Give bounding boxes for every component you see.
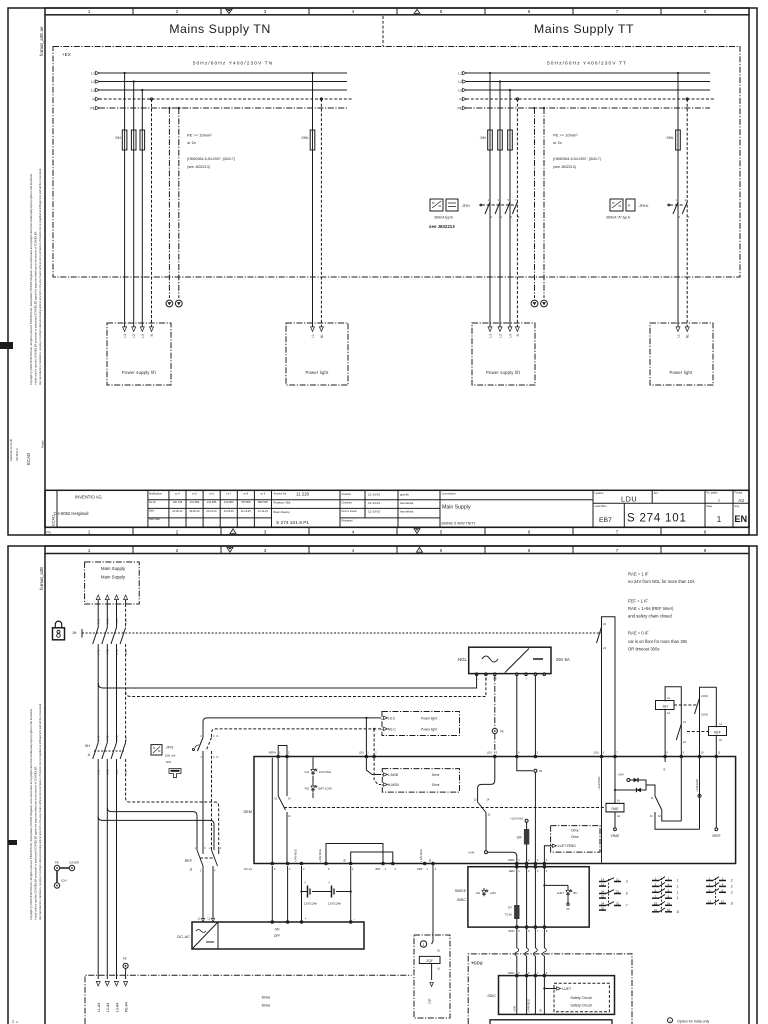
svg-text:RAE = 0 IF: RAE = 0 IF <box>628 631 649 636</box>
fuse .SI7 <box>514 905 519 919</box>
wire L1 drop to fuse TN <box>124 73 126 130</box>
svg-text:RAE = 1 IF: RAE = 1 IF <box>628 572 649 577</box>
wire L2 fuse to box TN <box>133 150 135 327</box>
svg-text:4: 4 <box>352 548 355 553</box>
svg-text:+24V-EVK: +24V-EVK <box>695 779 699 792</box>
box Main Supply feed <box>85 562 140 604</box>
svg-text:ex 9: ex 9 <box>261 493 266 496</box>
svg-text:It shall only be used by SCHIN: It shall only be used by SCHINDLER perso… <box>34 766 38 920</box>
svg-text:50Hz/60Hz Y400/230V TN: 50Hz/60Hz Y400/230V TN <box>193 61 274 67</box>
main switch .JH padlock icon <box>53 628 65 640</box>
svg-text:1: 1 <box>423 943 425 947</box>
svg-text:880 508: 880 508 <box>258 500 268 504</box>
svg-text:+24V: +24V <box>513 1005 517 1012</box>
svg-text:6: 6 <box>528 529 531 534</box>
wire N drop TT dashed <box>516 99 518 327</box>
terminals SDIC top <box>516 974 519 977</box>
wire NGL minus to LDU5 <box>534 676 536 757</box>
svg-text:E: E <box>664 768 666 772</box>
wire L1 fuse to box TN <box>124 150 126 327</box>
svg-text:T2.5A: T2.5A <box>505 913 513 917</box>
svg-text:.LUET: .LUET <box>561 987 572 991</box>
junction L1 tap TN <box>124 72 126 74</box>
wire L1 bus TN <box>99 72 347 74</box>
svg-text:L3: L3 <box>91 89 95 93</box>
svg-text:NL: NL <box>320 334 324 338</box>
svg-text:ECAD: ECAD <box>51 515 56 526</box>
RCD .JFIHL switch contacts <box>673 202 678 214</box>
svg-text:ZQF: ZQF <box>427 998 431 1004</box>
svg-text:+24V-NSG: +24V-NSG <box>318 849 322 862</box>
box Power light TN <box>286 323 348 385</box>
svg-text:212 859: 212 859 <box>224 500 234 504</box>
earth bonding PE COVER LDU <box>54 865 59 870</box>
svg-text:ex 7: ex 7 <box>226 493 231 496</box>
svg-text:see J632213: see J632213 <box>429 224 455 229</box>
RCD .JFIH symbol boxes <box>430 199 443 211</box>
svg-text:PE: PE <box>457 107 462 111</box>
svg-text:L3-A4: L3-A4 <box>115 1003 119 1012</box>
wire SIHL drop TT <box>677 73 679 130</box>
wire drops to fuses TT <box>489 73 491 130</box>
terminal arrows from main supply <box>96 595 100 600</box>
svg-text:.1: .1 <box>676 879 679 883</box>
svg-text:Main Supply: Main Supply <box>101 575 126 580</box>
svg-text:22: 22 <box>601 894 605 898</box>
svg-text:.SEM: .SEM <box>508 869 514 873</box>
LED GN +24V in SMICE <box>482 890 486 894</box>
svg-text:.SIH: .SIH <box>479 136 486 140</box>
page 2 inner drawing border <box>44 554 46 1024</box>
svg-text:.SIHL: .SIHL <box>301 136 310 140</box>
svg-text:L3: L3 <box>458 89 462 93</box>
svg-text:.2: .2 <box>730 884 733 888</box>
svg-text:61: 61 <box>654 908 658 912</box>
dash-dot drive boundary <box>85 975 412 1024</box>
svg-text:3: 3 <box>264 548 267 553</box>
svg-text:.6: .6 <box>625 892 628 896</box>
wire LL fuse to power light TN <box>312 150 314 327</box>
svg-text:.SMIC: .SMIC <box>507 971 514 975</box>
svg-text:750 805: 750 805 <box>241 500 251 504</box>
svg-text:Power light: Power light <box>421 716 437 720</box>
svg-text:12V/12Ah: 12V/12Ah <box>304 902 318 906</box>
wire L2 bus TT <box>466 81 710 83</box>
title block location cells <box>592 490 594 527</box>
title block commission cell <box>439 490 441 527</box>
svg-text:6: 6 <box>528 548 531 553</box>
svg-text:Any reproduction, translation,: Any reproduction, translation, copying o… <box>38 703 42 920</box>
svg-text:format_a3E.ae: format_a3E.ae <box>39 26 44 56</box>
svg-text:Power light: Power light <box>306 370 330 375</box>
wire N bus TT dashed <box>466 98 714 100</box>
svg-text:Date: Date <box>149 510 155 513</box>
svg-text:L2: L2 <box>91 80 95 84</box>
terminal +12V-NSG and fuse .SI4 <box>525 819 528 822</box>
svg-text:.BAT: .BAT <box>375 867 381 871</box>
mech link .SH to 21N1 contact dashed <box>674 704 698 706</box>
svg-text:8: 8 <box>704 529 707 534</box>
svg-text:53: 53 <box>654 902 658 906</box>
svg-text:.SH: .SH <box>662 704 668 708</box>
REPH jumper bridge <box>278 746 287 756</box>
terminal arrows into power light TN <box>311 327 315 332</box>
wires .JFIS to .REF contacts <box>202 751 204 850</box>
svg-text:21: 21 <box>708 900 712 904</box>
wire N drop TN dashed <box>151 99 153 327</box>
box LUET-PEBO Drive <box>551 826 600 853</box>
svg-text:10-04-30: 10-04-30 <box>224 510 235 513</box>
wire N to NGL N dashed branch bend <box>126 674 486 697</box>
svg-text:L1: L1 <box>91 72 95 76</box>
terminals SEM bottom edge <box>271 862 274 865</box>
junction SIHL tap TT <box>677 72 679 74</box>
wire PE bus TN dash-dot <box>99 107 347 109</box>
svg-text:3: 3 <box>264 9 267 14</box>
svg-text:1: 1 <box>717 515 722 524</box>
svg-text:N: N <box>485 677 487 680</box>
wire to +24V terminal <box>485 813 487 851</box>
svg-text:!: ! <box>233 530 234 534</box>
svg-text:or 2x: or 2x <box>553 140 562 145</box>
svg-text:PE: PE <box>123 957 127 961</box>
svg-text:.NGL: .NGL <box>457 657 468 662</box>
module SMICE box <box>468 867 589 927</box>
svg-text:12-10-03: 12-10-03 <box>368 501 380 505</box>
svg-text:.SMIC: .SMIC <box>507 858 514 862</box>
wire SIHL drop TN <box>312 73 314 130</box>
svg-text:.LUET-PEBO: .LUET-PEBO <box>557 844 576 848</box>
page 1 inner drawing border <box>44 15 46 528</box>
wire LDU10 +24V-EVK <box>699 758 701 829</box>
title block modification table <box>148 499 272 501</box>
terminal VRAE <box>614 812 616 828</box>
svg-text:Pub-Date 12-11-06: Pub-Date 12-11-06 <box>9 439 13 461</box>
svg-text:LDU: LDU <box>621 494 637 503</box>
svg-text:Commission: Commission <box>442 491 457 495</box>
svg-text:.1: .1 <box>676 890 679 894</box>
svg-text:N-MGB: N-MGB <box>388 783 399 787</box>
svg-text:34: 34 <box>601 902 605 906</box>
svg-text:22/N2: 22/N2 <box>701 713 708 717</box>
svg-text:(see J632213): (see J632213) <box>553 165 576 169</box>
svg-text:24: 24 <box>601 890 605 894</box>
svg-text:hamefeba: hamefeba <box>400 510 414 514</box>
terminals SEM top edge <box>277 755 280 758</box>
svg-text:Drive: Drive <box>262 996 271 1000</box>
svg-text:Copyright (c) 2004 INVENTIO AG: Copyright (c) 2004 INVENTIO AG, all righ… <box>29 708 33 920</box>
svg-text:3 L2: 3 L2 <box>106 618 110 624</box>
svg-text:ECAD: ECAD <box>26 453 31 465</box>
wires through SMICE <box>516 868 518 905</box>
svg-text:lang.: lang. <box>735 505 741 508</box>
wire LDU4 to 63 terminal <box>517 758 533 771</box>
svg-text:S274101.9: S274101.9 <box>15 448 19 461</box>
contact RAE 21/34/32 <box>646 785 655 796</box>
wires main supply drops <box>97 604 99 628</box>
svg-text:L-MGB: L-MGB <box>388 773 398 777</box>
svg-text:FEF = 1 IF: FEF = 1 IF <box>628 599 648 604</box>
terminals SMICE bottom <box>516 926 519 929</box>
wire L2 drop to fuse TN <box>133 82 135 131</box>
svg-text:5: 5 <box>440 9 443 14</box>
svg-text:ex 6: ex 6 <box>209 493 214 496</box>
zone +EX dash-dot boundary box <box>53 47 740 278</box>
svg-text:PE >= 10mm²: PE >= 10mm² <box>553 133 578 138</box>
svg-text:Main Supply: Main Supply <box>101 566 126 571</box>
svg-text:REF: REF <box>714 730 721 734</box>
svg-text:S 274 101: S 274 101 <box>627 512 687 524</box>
svg-text:.8: .8 <box>87 753 90 757</box>
svg-text:CH-6052 Hergiswil: CH-6052 Hergiswil <box>54 511 89 516</box>
svg-text:No. pages: No. pages <box>707 492 719 495</box>
svg-text:LS-C: LS-C <box>388 716 396 720</box>
svg-text:211 582: 211 582 <box>190 500 200 504</box>
svg-text:format_a3E: format_a3E <box>39 567 44 590</box>
svg-text:3: 3 <box>264 529 267 534</box>
ground earth symbols TT <box>531 300 538 307</box>
svg-text:NL: NL <box>686 334 690 338</box>
mech link 21/22 to REF dashed <box>687 731 709 733</box>
title block frame <box>45 490 749 527</box>
contact RAE 22/24/21 in SEM <box>478 803 486 813</box>
svg-text:+24V-NSG: +24V-NSG <box>294 849 298 862</box>
title block INVENTIO AG cell <box>147 490 149 527</box>
svg-text:!: ! <box>417 10 418 14</box>
svg-text:09-26-16: 09-26-16 <box>189 510 200 513</box>
auxiliary contact cross reference group 3 <box>706 880 713 882</box>
svg-text:Option for India only: Option for India only <box>677 1019 709 1023</box>
svg-text:211 585: 211 585 <box>207 500 217 504</box>
box ZGF option dash-dot <box>414 935 450 1018</box>
wire NGL PE dash-dot to PE symbol <box>494 676 496 729</box>
svg-text:.LDU: .LDU <box>593 751 599 755</box>
svg-text:2: 2 <box>176 548 179 553</box>
box Power supply lift TT <box>472 323 535 385</box>
power supply NGL box <box>469 647 551 673</box>
svg-text:Project: Project <box>41 440 45 448</box>
svg-text:31: 31 <box>616 902 620 906</box>
svg-text:INVENTIO AG: INVENTIO AG <box>75 494 102 499</box>
title block archive cell <box>271 490 273 527</box>
contact 21/22 of .SH pair <box>676 724 681 740</box>
svg-text:Power light: Power light <box>421 727 437 731</box>
svg-text:+24V-NSG: +24V-NSG <box>527 999 531 1012</box>
RCD .JFIH switch contacts <box>485 202 490 214</box>
option india note <box>668 1018 673 1023</box>
page 1 bottom column strip <box>45 527 749 535</box>
box LS-C NS-C Power light <box>382 712 460 736</box>
svg-text:.SI4: .SI4 <box>516 836 522 840</box>
svg-text:.DC-A1: .DC-A1 <box>243 867 252 871</box>
LED RD BAT LOW <box>312 776 314 784</box>
wire LDU6 +12V-NSG <box>601 758 603 863</box>
wire N below .SH dashed to REF <box>126 759 219 850</box>
svg-text:Released: Released <box>342 519 354 523</box>
svg-text:100 mA: 100 mA <box>165 754 175 758</box>
svg-text:+24V: +24V <box>490 891 497 895</box>
dashed link RAE line <box>284 807 606 809</box>
terminal arrows into power light TT <box>676 327 680 332</box>
svg-text:No.No.: No.No. <box>149 501 157 504</box>
svg-text:L1: L1 <box>489 334 493 338</box>
LED .LUET BU <box>543 884 545 886</box>
terminal arrows into power supply lift TN <box>123 327 127 332</box>
wire NS-C to .JFIS dashed <box>212 729 382 738</box>
wire KBP2 to ZGF <box>432 865 434 941</box>
svg-text:11: 11 <box>616 878 619 882</box>
svg-text:Drive: Drive <box>432 783 440 787</box>
svg-text:L2: L2 <box>132 334 136 338</box>
wires .REF to DC-AC <box>202 866 204 922</box>
svg-text:L1: L1 <box>458 72 462 76</box>
junctions taps TT <box>489 72 491 74</box>
svg-text:21/N1: 21/N1 <box>701 694 708 698</box>
junction .SIHL tap TN <box>311 72 313 74</box>
ground earth symbols TN <box>166 300 173 307</box>
svg-text:.7: .7 <box>625 904 628 908</box>
auxiliary contact cross reference group 1 <box>599 881 606 883</box>
module SDIC box <box>499 976 615 1015</box>
svg-text:+: + <box>304 881 306 885</box>
svg-text:L2: L2 <box>458 80 462 84</box>
svg-text:.LUET: .LUET <box>556 891 564 895</box>
svg-text:+: + <box>328 881 330 885</box>
svg-text:.REPH: .REPH <box>268 751 276 755</box>
terminal arrows into power supply lift TT <box>488 327 492 332</box>
wire NGL plus to LDU4 <box>516 676 518 757</box>
svg-text:.2: .2 <box>730 890 733 894</box>
svg-text:LDU: LDU <box>359 751 364 755</box>
drive feeder arrows L1-A4 L2-A4 L3-A4 <box>96 981 100 986</box>
svg-text:LL: LL <box>311 334 315 338</box>
svg-text:Replaces / Bld.: Replaces / Bld. <box>274 500 292 504</box>
svg-text:5 L3: 5 L3 <box>115 618 119 624</box>
svg-text:ZQF: ZQF <box>426 959 432 963</box>
svg-text:L1: L1 <box>123 334 127 338</box>
svg-text:or 2x: or 2x <box>187 140 196 145</box>
svg-text:.SDIC: .SDIC <box>486 994 496 998</box>
page 2 column header strip <box>45 546 749 554</box>
terminal VREF <box>715 758 717 828</box>
svg-text:Copyright (c) 2004 INVENTIO AG: Copyright (c) 2004 INVENTIO AG, all righ… <box>29 173 33 385</box>
svg-text:Archive No: Archive No <box>274 491 287 495</box>
svg-text:It shall only be used by SCHIN: It shall only be used by SCHINDLER perso… <box>34 231 38 385</box>
svg-text:7: 7 <box>616 548 619 553</box>
svg-text:S 274 101.9 P1: S 274 101.9 P1 <box>276 520 309 526</box>
svg-text:RAE = 1+5s (REF timer): RAE = 1+5s (REF timer) <box>628 606 674 611</box>
svg-text:12V/12Ah: 12V/12Ah <box>328 902 342 906</box>
svg-text:8 N: 8 N <box>124 737 128 741</box>
svg-text:Mains Supply TN: Mains Supply TN <box>169 22 271 36</box>
svg-text:VREF: VREF <box>712 834 721 838</box>
svg-text:11-12-25: 11-12-25 <box>241 510 251 513</box>
svg-text:DIN: DIN <box>166 760 171 764</box>
svg-text:4: 4 <box>352 529 355 534</box>
svg-text:2 T1: 2 T1 <box>97 735 101 741</box>
svg-text:5: 5 <box>440 548 443 553</box>
svg-text:04-06-14: 04-06-14 <box>172 510 183 513</box>
changeover contact REPH 13/14/11 <box>277 758 279 797</box>
svg-text:Checked: Checked <box>342 500 353 504</box>
svg-text:and safety chain closed: and safety chain closed <box>628 614 672 619</box>
inverter .DC-AC box <box>192 922 364 949</box>
PE earth point symbol <box>492 728 497 733</box>
battery string wires <box>301 866 303 922</box>
contact 21N1/22N2 and coil REF pair <box>700 687 717 756</box>
junction NL tap TN <box>320 98 322 100</box>
svg-text:SMICE: SMICE <box>455 889 467 893</box>
svg-text:.SIHL: .SIHL <box>666 136 675 140</box>
svg-text:ex 5: ex 5 <box>192 493 197 496</box>
svg-text:N: N <box>217 756 219 759</box>
wire LL TT down <box>677 150 679 327</box>
junction L3 tap TN <box>141 89 143 91</box>
svg-text:N: N <box>217 735 219 738</box>
battery B2 12V/12Ah <box>331 886 333 898</box>
svg-text:Power supply lift: Power supply lift <box>122 370 157 375</box>
box L-MGB N-MGB Drive <box>382 769 459 793</box>
junction NL tap TT <box>686 98 688 100</box>
title block page cells <box>704 490 706 527</box>
svg-text:12-10-03: 12-10-03 <box>368 492 380 496</box>
svg-text:8: 8 <box>704 548 707 553</box>
svg-text:car is on floor for more than: car is on floor for more than 30s <box>628 639 687 644</box>
svg-text:32: 32 <box>601 906 605 910</box>
svg-text:Format: Format <box>735 492 743 495</box>
svg-text:!: ! <box>419 549 420 553</box>
svg-text:.1: .1 <box>676 884 679 888</box>
svg-text:0V: 0V <box>343 859 347 862</box>
title block ECAD cell <box>56 490 58 527</box>
svg-text:21: 21 <box>616 890 620 894</box>
svg-text:VRAE: VRAE <box>611 834 620 838</box>
svg-text:26V 6A: 26V 6A <box>556 657 570 662</box>
svg-text:.8: .8 <box>676 910 679 914</box>
svg-text:.JFIHL: .JFIHL <box>638 204 649 208</box>
svg-text:PE >= 10mm²: PE >= 10mm² <box>187 133 212 138</box>
svg-text:Modification: Modification <box>149 492 162 495</box>
svg-text:11 220: 11 220 <box>296 491 310 496</box>
module .SEM box <box>254 757 736 864</box>
wire PE drops TN dash-dot <box>168 108 170 298</box>
PE terminal symbol drive <box>123 963 128 968</box>
svg-text:12-12-21: 12-12-21 <box>258 510 269 513</box>
wire L2 bus TN <box>99 81 347 83</box>
svg-text:GN: GN <box>305 770 310 774</box>
wire LS-C to .JFIS <box>203 718 381 738</box>
svg-text:ON: ON <box>275 928 280 932</box>
svg-text:.3: .3 <box>625 880 628 884</box>
svg-text:Page: Page <box>707 505 713 508</box>
svg-text:5: 5 <box>440 529 443 534</box>
svg-text:ex 4: ex 4 <box>175 493 180 496</box>
page 1 column header strip <box>45 8 749 15</box>
wire L2 branch to REF contact <box>107 808 197 850</box>
svg-text:(HD60364-5-54:2007, §543.7): (HD60364-5-54:2007, §543.7) <box>553 157 601 161</box>
svg-text:Drive: Drive <box>432 773 440 777</box>
svg-text:no 24V from NGL for more than: no 24V from NGL for more than 10s <box>628 579 694 584</box>
svg-text:63: 63 <box>539 769 543 773</box>
title block created/checked rows <box>339 490 341 527</box>
svg-text:PE: PE <box>55 860 59 864</box>
svg-text:Lead Office: Lead Office <box>595 505 608 508</box>
svg-text:12-10-03: 12-10-03 <box>368 510 380 514</box>
svg-text:7: 7 <box>616 529 619 534</box>
svg-text:Safety Circuit: Safety Circuit <box>570 1004 591 1008</box>
svg-text:Drive: Drive <box>571 835 579 839</box>
svg-text:100 166: 100 166 <box>173 500 183 504</box>
